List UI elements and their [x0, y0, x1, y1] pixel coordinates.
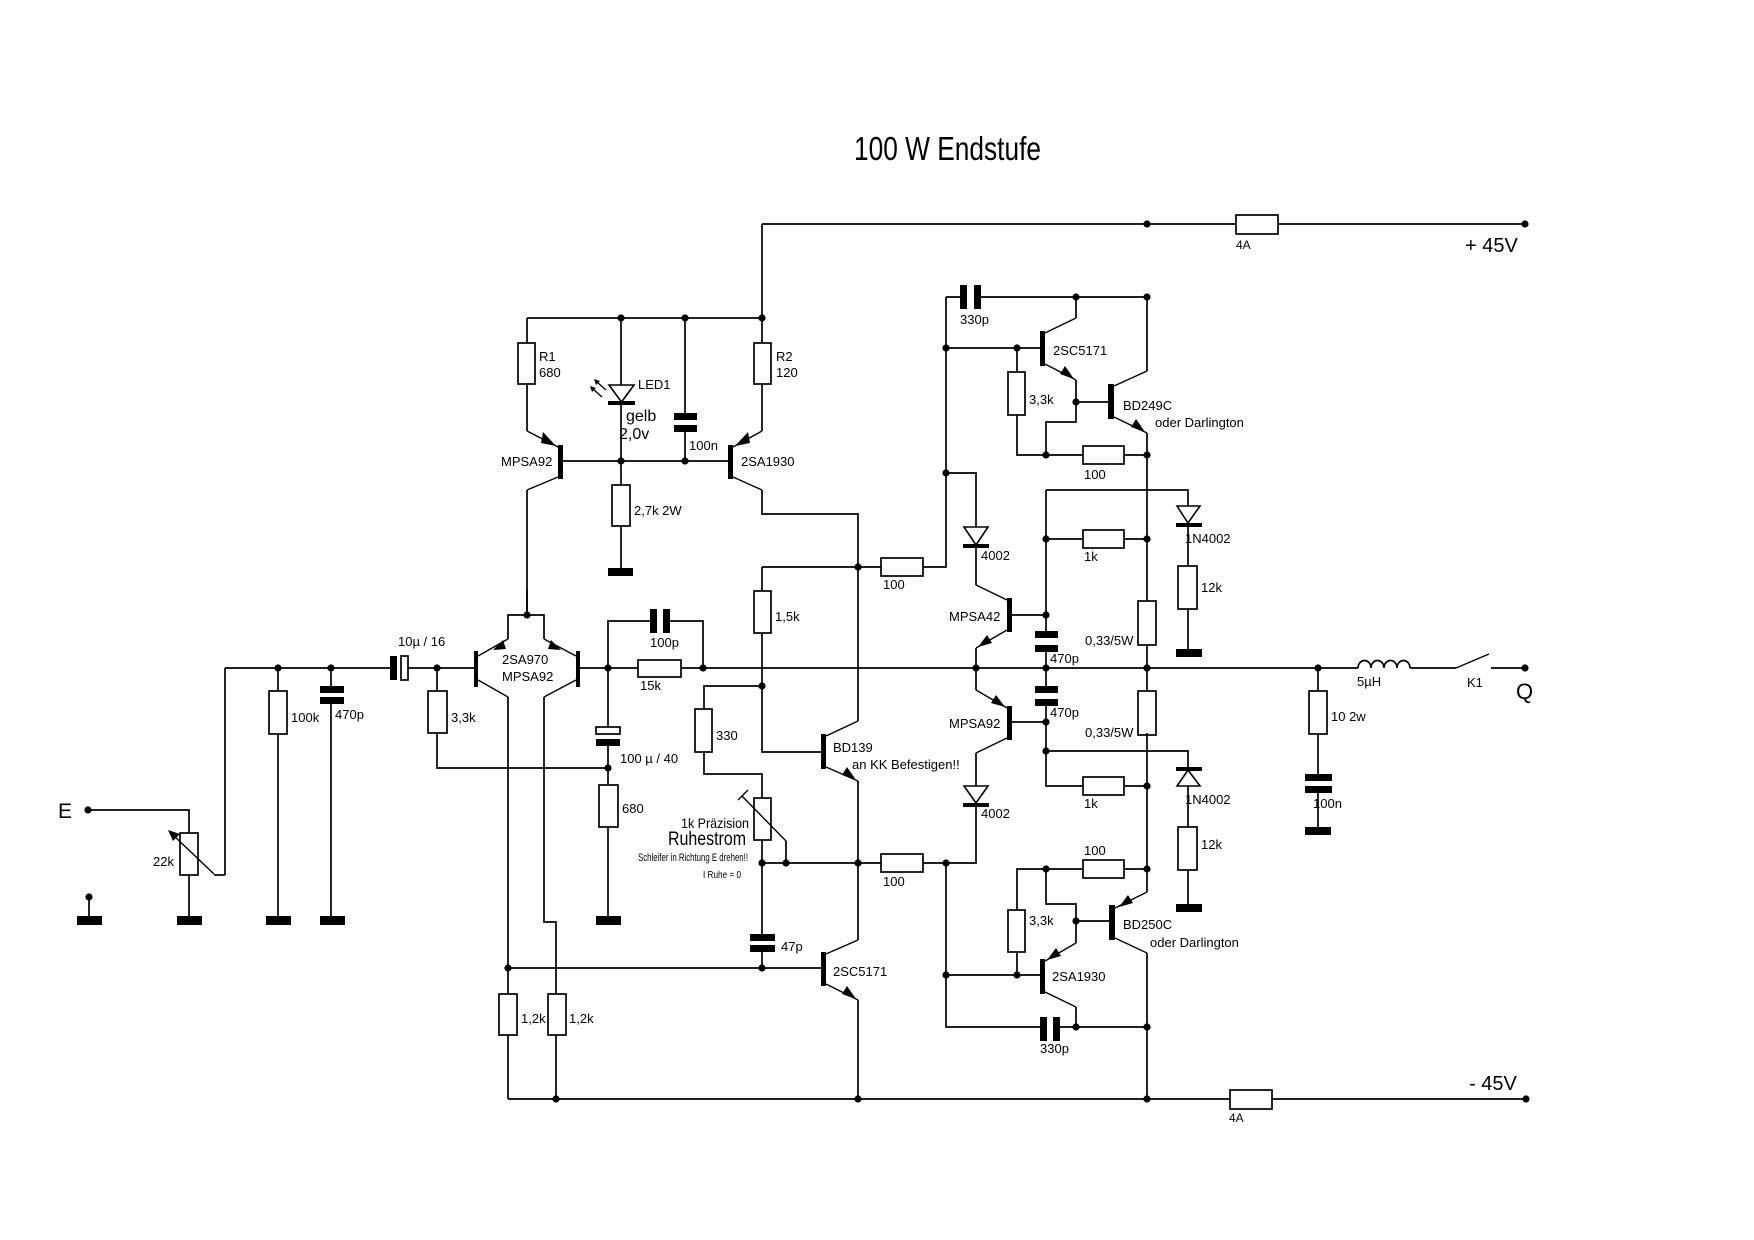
resistor 680: [599, 785, 618, 827]
resistor 0,33/5W lower: [1138, 691, 1156, 735]
node wiper: [782, 859, 789, 866]
capacitor 100p plates: [650, 609, 657, 633]
svg-text:470p: 470p: [335, 707, 364, 722]
svg-text:1N4002: 1N4002: [1185, 531, 1231, 546]
wire 2SA1930 collector to 330p bus: [1075, 1007, 1077, 1027]
wire 1,5k riser and top bus y567: [762, 297, 946, 591]
node 100k top: [274, 664, 281, 671]
transistor BD250C: [1109, 892, 1147, 953]
ground (100k): [266, 916, 291, 925]
wire node A to BD139 base: [762, 686, 821, 752]
resistor 1,2k #2: [548, 994, 566, 1035]
svg-text:100n: 100n: [1313, 796, 1342, 811]
wire 12k lower bottom: [1187, 870, 1189, 904]
wire 680 leads: [607, 768, 609, 916]
node 3,3k top lead: [1013, 344, 1020, 351]
svg-text:4A: 4A: [1236, 238, 1251, 252]
wire wiper riser to main line: [224, 668, 226, 875]
resistor 10 2w: [1309, 691, 1327, 734]
diode 1N4002 lower: [1176, 767, 1202, 786]
wire L-link to BD250C base: [1046, 869, 1076, 921]
diode 4002 upper: [963, 527, 989, 548]
wire BD139 emitter riser: [857, 781, 859, 863]
svg-text:3,3k: 3,3k: [1029, 913, 1054, 928]
ground (12k lower): [1176, 904, 1202, 912]
svg-text:BD250C: BD250C: [1123, 917, 1172, 932]
node 100n top: [681, 314, 688, 321]
svg-text:1,2k: 1,2k: [569, 1011, 594, 1026]
wire coil to switch: [1410, 667, 1456, 669]
node 100 right / 2SA1930 base riser: [942, 859, 949, 866]
transistor 2SA1930 (lower driver): [1040, 943, 1076, 1007]
node 100 lower right / main vertical: [1143, 865, 1150, 872]
wire +45V top rail: [762, 224, 1525, 318]
svg-text:120: 120: [776, 365, 798, 380]
wire 100p loop: [608, 621, 703, 668]
capacitor 470p upper (right) leads: [1045, 615, 1047, 668]
resistor 330: [695, 709, 712, 752]
ground (output 100n): [1305, 827, 1331, 835]
wire main line mid: [580, 667, 1358, 669]
wire 1k upper leads: [1046, 538, 1147, 540]
node 330p bus / main vertical: [1143, 293, 1150, 300]
svg-text:2SC5171: 2SC5171: [1053, 343, 1107, 358]
wire 4002 upper branch: [946, 473, 976, 585]
node BD250C base: [1072, 917, 1079, 924]
inductor 5uH: [1358, 661, 1410, 668]
svg-text:100k: 100k: [291, 710, 320, 725]
ground (22k): [177, 916, 202, 925]
resistor 1,2k #1: [499, 994, 517, 1035]
svg-text:2,7k 2W: 2,7k 2W: [634, 503, 682, 518]
node 470p top: [327, 664, 334, 671]
svg-text:1k: 1k: [1084, 549, 1098, 564]
wire 3,3k input leads: [437, 668, 608, 768]
svg-text:1,2k: 1,2k: [521, 1011, 546, 1026]
transistor 2SC5171 (top driver): [1040, 318, 1076, 380]
wire 2SC5171 emitter to rail: [857, 1000, 859, 1099]
capacitor 100n bias plates: [674, 413, 697, 420]
svg-text:MPSA92: MPSA92: [501, 454, 552, 469]
svg-text:+ 45V: + 45V: [1465, 235, 1518, 257]
wire x1046 lower segment: [1046, 722, 1083, 786]
transistor pair 2SA970/MPSA92 (differential input): [474, 590, 580, 697]
capacitor 330p top plates: [960, 285, 967, 309]
capacitor 100n (bias) leads: [684, 318, 686, 461]
node LED cathode / base bus: [617, 457, 624, 464]
capacitor 100u/40: [596, 727, 620, 746]
wire E to pot: [88, 810, 189, 833]
svg-text:100: 100: [883, 874, 905, 889]
svg-text:MPSA42: MPSA42: [949, 609, 1000, 624]
node A (bias node): [758, 682, 765, 689]
svg-text:BD249C: BD249C: [1123, 398, 1172, 413]
wire 2SC5171 top collector riser: [1075, 297, 1077, 318]
svg-text:MPSA92: MPSA92: [949, 716, 1000, 731]
wire MPSA42 emitter to main line: [975, 648, 977, 668]
svg-text:3,3k: 3,3k: [1029, 392, 1054, 407]
wire 2SA1930 bottom base riser: [945, 863, 947, 975]
node 3,3k input top: [433, 664, 440, 671]
resistor 15k: [638, 660, 681, 677]
node top rail / main vertical: [1143, 220, 1150, 227]
node y751 branch: [1042, 747, 1049, 754]
svg-text:E: E: [58, 800, 72, 823]
svg-text:1,5k: 1,5k: [775, 609, 800, 624]
svg-text:2SA970: 2SA970: [502, 652, 548, 667]
node MPSA42 base / x1046: [1042, 611, 1049, 618]
node R2 top riser: [758, 314, 765, 321]
capacitor 470p input plates: [320, 686, 344, 693]
wire MPSA92 collector to 4002 lower: [975, 753, 977, 786]
wire 47p leads: [761, 863, 763, 968]
resistor 2,7k 2W: [612, 485, 630, 526]
transistor BD139: [821, 721, 858, 781]
fuse F2 4A bottom: [1230, 1090, 1272, 1109]
svg-text:15k: 15k: [640, 678, 661, 693]
svg-text:Schleifer in Richtung E drehen: Schleifer in Richtung E drehen!!: [638, 852, 748, 864]
svg-text:oder Darlington: oder Darlington: [1155, 415, 1244, 430]
svg-text:680: 680: [622, 801, 644, 816]
wire BD249C emitter down main vertical: [1146, 433, 1148, 601]
resistor R2 120: [754, 343, 771, 384]
node main vertical / rail: [1143, 1095, 1150, 1102]
wire VAS base bus y968: [508, 968, 821, 994]
svg-text:I Ruhe = 0: I Ruhe = 0: [703, 870, 741, 881]
wire BD139 collector riser: [857, 567, 859, 721]
wire L-link to BD249C base: [1046, 402, 1076, 455]
svg-text:Q: Q: [1516, 679, 1533, 704]
fuse F1 4A top: [1236, 215, 1278, 234]
potentiometer 1k Ruhestrom: [738, 790, 786, 863]
wire 2,7k leads: [620, 461, 622, 568]
switch K1: [1456, 654, 1489, 668]
wire 2SC5171 top base bus y348: [946, 347, 1040, 349]
node 470p / main line: [1042, 664, 1049, 671]
terminal Q: [1521, 664, 1528, 671]
svg-text:100: 100: [883, 577, 905, 592]
wire main vertical mid segment: [1146, 733, 1148, 892]
node 330p bus / main vertical: [1143, 1023, 1150, 1030]
node 2SC5171 top collector: [1072, 293, 1079, 300]
terminal -45V: [1522, 1095, 1529, 1102]
resistor R1 680: [518, 343, 535, 384]
node MPSA92 base / x1046: [1042, 718, 1049, 725]
wire 1,2k #1 bottom: [507, 1035, 509, 1099]
LED LED1: [590, 379, 635, 405]
capacitor 10u/16: [390, 656, 408, 680]
svg-text:LED1: LED1: [638, 377, 671, 392]
node output line / main vertical: [1143, 664, 1150, 671]
node 3,3k/100 junction lower: [1042, 865, 1049, 872]
wire base bus y461: [563, 460, 728, 462]
wire MPSA92 collector to diff tail: [526, 490, 528, 615]
node 3,3k/100 junction upper: [1042, 451, 1049, 458]
svg-text:47p: 47p: [781, 939, 803, 954]
wire 2SA1930 collector path to x858: [762, 490, 858, 567]
svg-text:10 2w: 10 2w: [1331, 709, 1366, 724]
potentiometer 22k: [168, 830, 225, 875]
resistor 100 (lower-left): [881, 854, 923, 872]
node x946 base: [942, 344, 949, 351]
svg-text:100p: 100p: [650, 635, 679, 650]
svg-text:10µ / 16: 10µ / 16: [398, 634, 445, 649]
svg-text:100: 100: [1084, 467, 1106, 482]
svg-text:100n: 100n: [689, 438, 718, 453]
wire 330p bottom bus: [946, 975, 1147, 1027]
wire MPSA92 emitter to main line: [975, 668, 977, 690]
svg-text:Ruhestrom: Ruhestrom: [668, 829, 746, 850]
node 100 right / main vertical: [1143, 451, 1150, 458]
transistor MPSA92 (top-left current source): [527, 431, 563, 490]
wire x1046 upper segment: [1045, 490, 1047, 615]
wire 1k lower right lead: [1124, 785, 1147, 787]
wire MPSA92 base lead: [1012, 721, 1046, 723]
node 47p bottom: [758, 964, 765, 971]
wire 10 2w leads: [1317, 668, 1319, 827]
wire 3,3k bottom leads: [1017, 869, 1046, 975]
resistor 100 lower-right: [1083, 860, 1124, 878]
wire BD250C collector down: [1146, 953, 1148, 1099]
resistor 100 upper-right: [1083, 446, 1124, 464]
wire BD249C collector riser: [1146, 297, 1148, 371]
wire 100k leads: [277, 668, 279, 916]
svg-text:- 45V: - 45V: [1469, 1073, 1517, 1095]
svg-text:R1: R1: [539, 349, 556, 364]
wire diff left collector down: [507, 697, 509, 968]
transistor 2SA1930 (top current source): [728, 431, 762, 490]
resistor 3,3k top: [1008, 372, 1025, 415]
wire BD249C base lead: [1076, 401, 1108, 403]
capacitor 470p upper plates: [1035, 631, 1058, 638]
wire lower 1N4002 branch y751: [1046, 751, 1188, 827]
transistor 2SC5171 (VAS bottom): [821, 940, 858, 1000]
resistor 100 (upper-left, x858 net): [881, 558, 923, 576]
resistor 1k lower: [1083, 777, 1124, 795]
svg-text:2SC5171: 2SC5171: [833, 964, 887, 979]
node 2SC5171 emitter / rail: [854, 1095, 861, 1102]
resistor 3,3k input: [428, 691, 447, 733]
node diff tail: [523, 611, 530, 618]
diode 4002 lower: [963, 786, 989, 807]
ground (12k upper): [1176, 649, 1202, 657]
wire main line left part: [225, 667, 474, 669]
ground (2,7k): [608, 568, 633, 576]
svg-text:MPSA92: MPSA92: [502, 669, 553, 684]
svg-text:4A: 4A: [1229, 1111, 1244, 1125]
capacitor 47p plates: [750, 934, 775, 941]
capacitor 470p lower plates: [1035, 686, 1058, 693]
svg-text:3,3k: 3,3k: [451, 710, 476, 725]
capacitor 100n output plates: [1305, 774, 1332, 781]
node output tap: [1314, 664, 1321, 671]
wire pot 22k bottom to ground: [188, 875, 190, 916]
node 3,3k bottom lead: [1013, 971, 1020, 978]
svg-text:1N4002: 1N4002: [1185, 792, 1231, 807]
svg-text:12k: 12k: [1201, 580, 1222, 595]
node x858 y567: [854, 563, 861, 570]
ground (680): [596, 916, 621, 925]
svg-text:470p: 470p: [1050, 651, 1079, 666]
svg-text:680: 680: [539, 365, 561, 380]
wire LED1 leads: [620, 318, 622, 461]
svg-text:100 W Endstufe: 100 W Endstufe: [854, 130, 1041, 167]
svg-text:an KK Befestigen!!: an KK Befestigen!!: [852, 757, 960, 772]
transistor MPSA92 (lower driver): [976, 690, 1012, 753]
wire -45V bottom rail: [508, 1098, 1526, 1100]
svg-text:R2: R2: [776, 349, 793, 364]
wire MPSA42 base lead: [1012, 614, 1046, 616]
wire bias bus y863: [762, 806, 976, 863]
svg-text:2,0v: 2,0v: [619, 426, 649, 443]
node BD249C base: [1072, 398, 1079, 405]
svg-text:0,33/5W: 0,33/5W: [1085, 725, 1134, 740]
wire R2 leads: [761, 318, 763, 431]
wire 2SA1930 emitter riser: [1075, 921, 1077, 943]
node 2SA1930 collector / 330p: [1072, 1023, 1079, 1030]
node 1k lower right / main vertical: [1143, 782, 1150, 789]
node right base / 100u: [604, 664, 611, 671]
svg-text:BD139: BD139: [833, 740, 873, 755]
transistor BD249C: [1108, 371, 1147, 433]
wire diff right collector down: [544, 697, 556, 994]
svg-text:330: 330: [716, 728, 738, 743]
capacitor 330p bottom plates: [1040, 1017, 1047, 1041]
svg-text:330p: 330p: [1040, 1041, 1069, 1056]
node 100u bottom / 3,3k: [604, 764, 611, 771]
wire 2SC5171 collector riser: [857, 863, 859, 940]
capacitor 470p lower (right) leads: [1045, 668, 1047, 722]
svg-text:4002: 4002: [981, 806, 1010, 821]
wire 100u/40 leads: [607, 668, 609, 768]
wire 12k upper bottom: [1187, 609, 1189, 649]
svg-text:5µH: 5µH: [1357, 674, 1381, 689]
resistor 3,3k bottom: [1008, 910, 1025, 952]
wire base bus y975: [946, 974, 1040, 976]
svg-text:0,33/5W: 0,33/5W: [1085, 633, 1134, 648]
svg-text:oder Darlington: oder Darlington: [1150, 935, 1239, 950]
node 100n bottom / base bus: [681, 457, 688, 464]
node 15k right / 100p: [699, 664, 706, 671]
wire 3,3k top leads: [1017, 348, 1046, 455]
wire 1,2k #2 bottom: [555, 1035, 557, 1099]
diode 1N4002 upper: [1176, 506, 1202, 527]
wire 2SC5171 top emitter to BD249C base node: [1075, 380, 1077, 402]
node left collector / base wire: [504, 964, 511, 971]
resistor 12k upper: [1178, 566, 1197, 609]
node pot bottom: [758, 859, 765, 866]
wire R1 leads: [526, 318, 528, 431]
wire 470p input leads: [330, 668, 332, 916]
ground (input stub): [77, 916, 102, 925]
node 1k upper left: [1042, 535, 1049, 542]
resistor 1k upper: [1083, 530, 1124, 548]
svg-text:470p: 470p: [1050, 705, 1079, 720]
ground (470p input): [320, 916, 345, 925]
node BD139 emitter / 2SC5171 collector: [854, 859, 861, 866]
svg-text:330p: 330p: [960, 312, 989, 327]
svg-text:4002: 4002: [981, 548, 1010, 563]
wire pot bottom: [761, 840, 763, 863]
svg-text:22k: 22k: [153, 854, 174, 869]
node 1,2k#2 / rail: [552, 1095, 559, 1102]
node x946 4002 branch: [942, 469, 949, 476]
terminal E: [84, 806, 91, 813]
wire 330 bottom to pot top: [704, 752, 762, 798]
resistor 0,33/5W upper: [1138, 601, 1156, 645]
node drivers emitter junction: [972, 664, 979, 671]
node base bus left: [942, 971, 949, 978]
wire K1 contact: [1491, 667, 1525, 669]
wire 100 upper-right leads: [1046, 454, 1147, 456]
wire top bias bus y318: [527, 317, 762, 319]
svg-text:gelb: gelb: [626, 408, 656, 425]
svg-text:100 µ / 40: 100 µ / 40: [620, 751, 678, 766]
svg-text:1k: 1k: [1084, 796, 1098, 811]
wire upper 1N4002 branch y490: [1046, 490, 1188, 566]
wire 0,33 upper bottom to main line: [1146, 645, 1148, 691]
node 1k right / main vertical: [1143, 535, 1150, 542]
wire BD250C base lead: [1076, 920, 1109, 922]
svg-text:K1: K1: [1467, 675, 1483, 690]
wire node A to 330 top: [704, 686, 762, 709]
resistor 100k: [269, 691, 287, 734]
wire 330p top bus y297: [946, 296, 1147, 298]
transistor MPSA42: [976, 585, 1012, 648]
svg-text:2SA1930: 2SA1930: [1052, 969, 1106, 984]
svg-text:12k: 12k: [1201, 837, 1222, 852]
node R1 top... LED top: [617, 314, 624, 321]
svg-text:2SA1930: 2SA1930: [741, 454, 795, 469]
svg-text:100: 100: [1084, 843, 1106, 858]
resistor 12k lower: [1178, 827, 1197, 870]
terminal +45V: [1521, 220, 1528, 227]
resistor 1,5k: [754, 591, 771, 633]
wire stub: [88, 897, 90, 916]
wire 1,5k bottom to node A (crosses main line): [761, 633, 763, 686]
ground stub terminal: [85, 893, 92, 900]
wire 100 lower-right leads: [1046, 868, 1147, 870]
